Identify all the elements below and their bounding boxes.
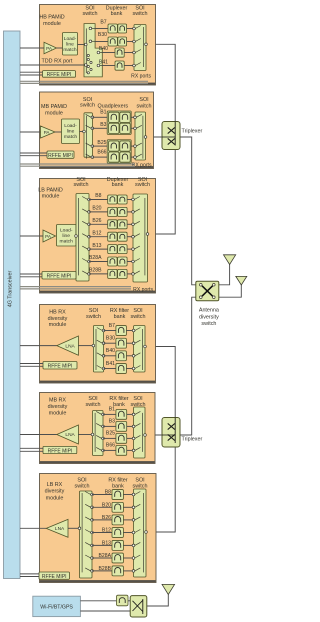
svg-text:Wi-Fi/BT/GPS: Wi-Fi/BT/GPS — [40, 605, 73, 611]
svg-text:B30: B30 — [98, 32, 107, 38]
svg-text:LNA: LNA — [65, 432, 75, 438]
svg-text:B1: B1 — [109, 407, 115, 413]
svg-text:module: module — [43, 21, 61, 27]
svg-text:Load-: Load- — [60, 228, 73, 234]
svg-text:switch: switch — [86, 314, 101, 320]
svg-text:switch: switch — [86, 402, 101, 408]
svg-text:B40: B40 — [106, 348, 115, 354]
svg-text:diversity: diversity — [45, 489, 65, 495]
svg-text:B13: B13 — [102, 540, 111, 546]
svg-text:B13: B13 — [92, 243, 101, 249]
svg-text:LB PAMiD: LB PAMiD — [38, 187, 63, 193]
svg-text:B40: B40 — [99, 46, 108, 52]
svg-text:module: module — [46, 495, 64, 501]
svg-text:B8: B8 — [95, 193, 101, 199]
svg-text:RFFE MIPI: RFFE MIPI — [48, 364, 73, 370]
svg-text:B41: B41 — [106, 361, 115, 367]
svg-text:LNA: LNA — [55, 526, 65, 532]
svg-text:RX ports: RX ports — [133, 287, 153, 293]
svg-text:switch: switch — [201, 321, 216, 327]
svg-text:B20: B20 — [102, 502, 111, 508]
svg-text:B26: B26 — [92, 218, 101, 224]
svg-text:PA: PA — [44, 130, 51, 135]
svg-text:Triplexer: Triplexer — [182, 129, 203, 135]
svg-text:PA: PA — [46, 46, 53, 51]
svg-text:MB RX: MB RX — [49, 398, 66, 404]
svg-text:bank: bank — [114, 314, 126, 320]
svg-text:B28A: B28A — [99, 553, 112, 559]
svg-text:Triplexer: Triplexer — [182, 437, 203, 443]
svg-text:B25: B25 — [97, 140, 106, 146]
svg-text:MB PAMiD: MB PAMiD — [41, 104, 67, 110]
svg-text:B28B: B28B — [89, 268, 102, 274]
svg-text:RFFE MIPI: RFFE MIPI — [48, 153, 73, 159]
svg-text:RX ports: RX ports — [131, 73, 151, 79]
svg-text:B8: B8 — [105, 489, 111, 495]
svg-text:B28A: B28A — [89, 255, 102, 261]
svg-text:RFFE MIPI: RFFE MIPI — [47, 72, 72, 78]
svg-text:RFFE MIPI: RFFE MIPI — [42, 574, 67, 580]
svg-text:switch: switch — [135, 182, 150, 188]
svg-text:Load-: Load- — [64, 36, 77, 42]
svg-text:B30: B30 — [106, 336, 115, 342]
svg-text:diversity: diversity — [48, 404, 68, 410]
svg-text:B12: B12 — [92, 230, 101, 236]
svg-text:module: module — [49, 411, 67, 417]
svg-text:SOI: SOI — [139, 97, 148, 103]
svg-text:diversity: diversity — [199, 314, 219, 320]
svg-text:B26: B26 — [102, 515, 111, 521]
svg-text:switch: switch — [83, 11, 98, 17]
svg-text:TDD RX port: TDD RX port — [42, 58, 73, 64]
svg-text:Load-: Load- — [64, 123, 77, 129]
svg-text:switch: switch — [74, 182, 89, 188]
svg-text:module: module — [49, 322, 67, 328]
svg-text:B41: B41 — [99, 59, 108, 65]
svg-text:bank: bank — [112, 182, 124, 188]
svg-text:B3: B3 — [109, 419, 115, 425]
svg-text:B12: B12 — [102, 527, 111, 533]
svg-text:B66: B66 — [97, 150, 106, 156]
svg-text:B66: B66 — [106, 443, 115, 449]
svg-text:B7: B7 — [100, 19, 106, 25]
svg-text:B7: B7 — [109, 323, 115, 329]
svg-text:RFFE MIPI: RFFE MIPI — [47, 274, 72, 280]
svg-text:switch: switch — [131, 314, 146, 320]
svg-text:B25: B25 — [106, 431, 115, 437]
svg-text:match: match — [63, 47, 77, 53]
svg-text:4G Transceiver: 4G Transceiver — [8, 271, 14, 308]
svg-text:switch: switch — [137, 103, 152, 109]
svg-text:bank: bank — [111, 11, 123, 17]
svg-text:switch: switch — [75, 484, 90, 490]
svg-text:line: line — [62, 233, 70, 239]
svg-text:B1: B1 — [100, 109, 106, 115]
svg-text:HB RX: HB RX — [49, 310, 66, 316]
svg-text:Antenna: Antenna — [199, 308, 219, 314]
svg-text:match: match — [60, 239, 74, 245]
svg-text:LNA: LNA — [65, 343, 75, 349]
svg-text:match: match — [64, 134, 78, 140]
svg-text:LB RX: LB RX — [47, 482, 63, 488]
svg-text:line: line — [67, 129, 75, 135]
svg-text:module: module — [45, 110, 63, 116]
svg-text:switch: switch — [133, 11, 148, 17]
svg-text:HB PAMiD: HB PAMiD — [39, 14, 64, 20]
svg-text:B20: B20 — [92, 206, 101, 212]
svg-text:diversity: diversity — [48, 316, 68, 322]
svg-text:module: module — [42, 194, 60, 200]
svg-text:switch: switch — [80, 103, 95, 109]
svg-text:RX ports: RX ports — [132, 162, 152, 168]
svg-text:B28B: B28B — [99, 566, 112, 572]
svg-text:line: line — [66, 41, 74, 47]
svg-text:bank: bank — [112, 484, 124, 490]
svg-text:B3: B3 — [100, 122, 106, 128]
svg-text:RFFE MIPI: RFFE MIPI — [48, 448, 73, 454]
svg-text:PA: PA — [45, 234, 52, 239]
